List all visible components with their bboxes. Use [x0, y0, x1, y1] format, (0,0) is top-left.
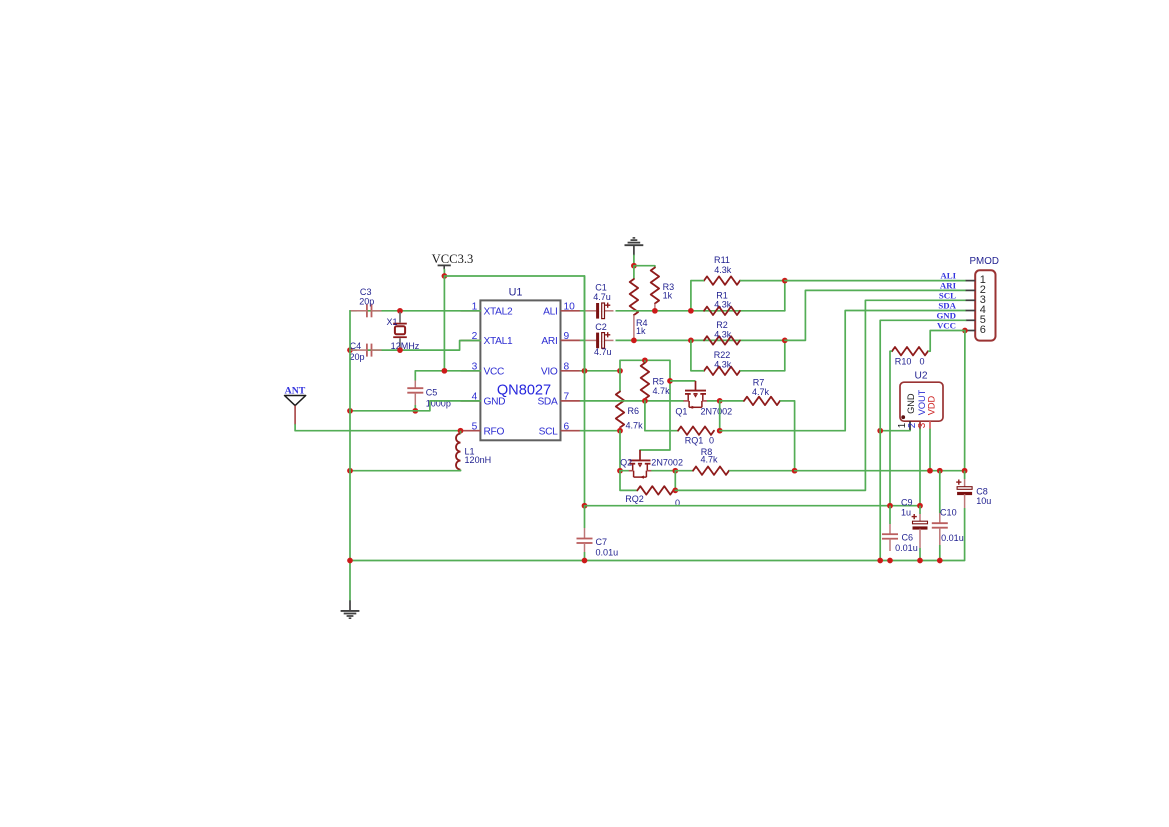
capacitor C8 10u	[956, 471, 991, 561]
U1 pin 9 ARI (right)	[541, 331, 580, 347]
connector J PMOD body	[975, 270, 995, 340]
junction C9 bottom / rail	[917, 558, 923, 564]
ground symbol (top, inverted)	[625, 238, 644, 256]
svg-text:ALI: ALI	[940, 271, 956, 281]
wire SCL 5V to PMOD pin3	[675, 300, 965, 490]
wire SCL down to RQ2	[620, 471, 637, 491]
resistor R2 4.3k	[704, 320, 740, 345]
svg-text:C4: C4	[350, 341, 362, 351]
ground symbol (bottom)	[341, 600, 360, 618]
junction C4 left / gnd rail	[347, 347, 353, 353]
svg-text:GND: GND	[484, 397, 506, 408]
wire PMOD VCC rail down	[964, 331, 966, 471]
junction bottom rail / gnd stem	[347, 558, 353, 564]
svg-text:4.7u: 4.7u	[594, 347, 612, 357]
svg-text:C7: C7	[596, 537, 608, 547]
svg-text:7: 7	[564, 392, 570, 403]
svg-text:2N7002: 2N7002	[701, 406, 733, 416]
junction C7 bottom / rail	[582, 558, 588, 564]
IC U2 body	[900, 382, 943, 421]
wire gnd left vertical	[349, 311, 351, 601]
svg-text:X1: X1	[386, 317, 397, 327]
svg-text:6: 6	[980, 324, 986, 336]
wire SDA pin7 row	[581, 400, 684, 402]
junction SCL / R6 bottom	[617, 428, 623, 434]
svg-text:RQ2: RQ2	[625, 494, 644, 504]
junction ALI out node	[782, 278, 788, 284]
antenna ANT symbol	[285, 385, 306, 424]
svg-text:C5: C5	[426, 387, 438, 397]
junction Q1 drain	[717, 398, 723, 404]
svg-text:Q1: Q1	[675, 406, 687, 416]
capacitor C1 4.7u	[586, 282, 616, 318]
net label SCL	[939, 290, 956, 300]
svg-text:R10: R10	[895, 356, 912, 366]
capacitor C6 0.01u	[882, 506, 918, 553]
wire R1 right tie up	[784, 281, 786, 311]
net label VCC	[937, 321, 956, 331]
svg-text:GND: GND	[936, 310, 956, 320]
svg-text:R6: R6	[628, 406, 640, 416]
wire VCC pin3 row	[415, 370, 480, 372]
U1 pin 1 XTAL2 (left)	[461, 302, 514, 318]
label U1 value QN8027	[497, 383, 551, 399]
wire R11/R1 left tie	[690, 281, 692, 311]
junction ARI out node	[782, 338, 788, 344]
svg-text:VOUT: VOUT	[917, 389, 927, 415]
svg-text:20p: 20p	[349, 352, 364, 362]
wire ANT to RFO	[295, 425, 460, 431]
U1 pin 2 XTAL1 (left)	[461, 331, 514, 347]
wire ALI to PMOD pin1	[785, 280, 966, 282]
PMOD pin 6	[966, 324, 986, 336]
svg-text:SCL: SCL	[939, 290, 956, 300]
junction C7 top / VOUT row	[582, 503, 588, 509]
junction VIO / VCC3.3 vertical	[582, 368, 588, 374]
svg-text:RQ1: RQ1	[685, 436, 704, 446]
svg-text:C2: C2	[595, 322, 607, 332]
label U2 reference	[914, 370, 927, 381]
svg-text:C9: C9	[901, 497, 913, 507]
wire ALI row pin10 to R1	[581, 310, 785, 312]
svg-text:20p: 20p	[359, 297, 374, 307]
svg-text:10: 10	[564, 302, 576, 313]
wire VIO up-over to R5/gate	[620, 360, 670, 450]
U1 pin 4 GND (left)	[461, 392, 506, 408]
U1 pin 5 RFO (left)	[461, 421, 505, 437]
transistor Q2 2N7002	[620, 450, 683, 479]
svg-text:C1: C1	[595, 282, 607, 292]
junction VDD row / C8	[962, 468, 968, 474]
svg-text:1k: 1k	[663, 290, 673, 300]
junction gnd rail / C5 row	[347, 408, 353, 414]
svg-text:0.01u: 0.01u	[941, 533, 964, 543]
resistor R11 4.3k	[691, 255, 785, 285]
wire gnd node to R3 top	[634, 266, 655, 268]
label U1 reference	[509, 287, 523, 299]
wire ground to R3/R4 node	[633, 255, 635, 265]
svg-text:1k: 1k	[636, 326, 646, 336]
junction C6 bottom / rail	[887, 558, 893, 564]
svg-text:PMOD: PMOD	[970, 256, 999, 267]
U2 pin 2 VOUT	[907, 389, 927, 429]
U2 pin 3 VDD	[917, 396, 937, 430]
junction C10 top / VDD row	[937, 468, 943, 474]
wire U2 VDD down	[929, 429, 931, 470]
wire XTAL2 row	[350, 310, 480, 312]
junction R1 left	[688, 308, 694, 314]
wire SCL down to Q2 source	[619, 431, 621, 471]
svg-text:4.3k: 4.3k	[714, 330, 732, 340]
junction ARI / R4 bottom	[631, 338, 637, 344]
svg-text:120nH: 120nH	[465, 455, 492, 465]
resistor RQ1 0	[678, 427, 714, 446]
wire VOUT row	[585, 505, 921, 507]
junction R2 left	[688, 338, 694, 344]
svg-text:0.01u: 0.01u	[596, 548, 619, 558]
wire L1 bottom to gnd rail	[350, 470, 461, 472]
PMOD pin 4	[966, 304, 986, 316]
capacitor C5 1000p	[407, 371, 451, 411]
wire bottom gnd rail	[350, 560, 965, 562]
svg-text:ANT: ANT	[285, 385, 306, 396]
svg-text:4.7u: 4.7u	[593, 292, 611, 302]
svg-text:ARI: ARI	[940, 280, 957, 290]
svg-text:0.01u: 0.01u	[895, 543, 918, 553]
capacitor C2 4.7u	[586, 322, 616, 357]
wire VIO pin8 row	[581, 370, 621, 372]
junction RQ1 right / Q1 drain leg	[717, 428, 723, 434]
capacitor C10 0.01u	[932, 471, 964, 561]
wire ARI to PMOD pin2	[785, 290, 966, 340]
svg-text:R5: R5	[653, 376, 665, 386]
junction SDA / R5 bottom	[642, 398, 648, 404]
resistor R4 1k	[630, 266, 648, 341]
svg-text:2N7002: 2N7002	[651, 458, 683, 468]
svg-text:VCC3.3: VCC3.3	[432, 252, 474, 266]
resistor R6 4.7k	[616, 371, 643, 431]
PMOD pin 2	[966, 284, 986, 296]
svg-text:9: 9	[564, 331, 570, 342]
svg-text:VCC: VCC	[937, 321, 956, 331]
svg-text:8: 8	[564, 362, 570, 373]
wire Q1 drain node	[708, 400, 720, 402]
junction VOUT / C9 top	[917, 503, 923, 509]
svg-text:SDA: SDA	[938, 301, 956, 311]
resistor R5 4.7k	[641, 360, 670, 401]
wire VCC3.3 stem	[443, 270, 445, 277]
resistor R8 4.7k	[675, 447, 794, 475]
wire Q2 source stub	[620, 470, 628, 472]
net label GND	[936, 310, 956, 320]
wire VCC3.3 vertical right	[584, 276, 586, 506]
junction X1 bottom / C4 row	[397, 347, 403, 353]
svg-text:ARI: ARI	[541, 336, 557, 347]
junction C5 bottom	[412, 408, 418, 414]
svg-text:U1: U1	[509, 287, 523, 299]
svg-text:XTAL2: XTAL2	[484, 307, 514, 318]
wire R10 left down	[889, 351, 891, 506]
junction VDD row / R7R8	[792, 468, 798, 474]
resistor R3 1k	[651, 268, 674, 311]
svg-text:ALI: ALI	[543, 307, 557, 318]
U1 pin 3 VCC (left)	[461, 362, 505, 378]
junction VCC3.3 / pin3	[442, 368, 448, 374]
junction C10 bottom / rail	[937, 558, 943, 564]
U1 pin 8 VIO (right)	[541, 362, 581, 378]
U2 pin 1 GND	[897, 393, 916, 431]
svg-text:4.3k: 4.3k	[714, 299, 732, 309]
svg-text:C8: C8	[976, 487, 988, 497]
svg-text:4.7k: 4.7k	[700, 455, 718, 465]
svg-text:VIO: VIO	[541, 367, 558, 378]
wire U2 GND to PMOD GND rail	[880, 430, 910, 432]
net label SDA	[938, 301, 956, 311]
wire Q2 drain down to RQ2 right	[674, 471, 676, 491]
wire R2/R22 left tie	[690, 340, 692, 370]
junction ALI / R3 bottom	[652, 308, 658, 314]
svg-text:5: 5	[472, 421, 478, 432]
svg-text:Q2: Q2	[620, 458, 632, 468]
wire C4/X1 row to XTAL1	[350, 341, 480, 351]
label PMOD reference	[970, 256, 999, 267]
junction Q2 drain	[672, 468, 678, 474]
capacitor C4 20p	[349, 341, 381, 362]
junction VDD pin / VDD row	[927, 468, 933, 474]
capacitor C3 20p	[350, 287, 382, 317]
net label ALI	[940, 271, 956, 281]
svg-text:R7: R7	[753, 378, 765, 388]
wire SDA branch to RQ1	[645, 401, 678, 431]
transistor Q1 2N7002	[670, 381, 732, 417]
wire R22 right tie up	[784, 340, 786, 370]
PMOD pin 3	[966, 294, 986, 306]
wire VCC3.3 top rail to right	[444, 276, 584, 371]
wire Q1 drain down to RQ1	[719, 401, 721, 431]
junction PMOD GND rail bottom	[877, 558, 883, 564]
net label ARI	[940, 280, 957, 290]
resistor R1 4.3k	[704, 290, 740, 315]
wire SCL pin6 row	[581, 430, 621, 432]
wire PMOD GND vertical	[880, 320, 965, 560]
svg-text:SCL: SCL	[539, 426, 559, 437]
junction VCC3.3 node	[442, 273, 448, 279]
junction VIO / R5R6 node	[617, 368, 623, 374]
wire PMOD VCC to R10	[930, 331, 965, 352]
junction R5 top	[642, 357, 648, 363]
svg-text:SDA: SDA	[537, 397, 558, 408]
svg-text:6: 6	[564, 421, 570, 432]
junction X1 top / XTAL2	[397, 308, 403, 314]
junction C6 top / VOUT row	[887, 503, 893, 509]
wire VDD row right	[795, 470, 965, 472]
resistor R7 4.7k	[720, 378, 795, 405]
svg-text:C10: C10	[940, 507, 957, 517]
junction RFO / L1 top	[458, 428, 464, 434]
svg-text:1u: 1u	[901, 507, 911, 517]
junction gnd rail / L1	[347, 468, 353, 474]
svg-text:U2: U2	[914, 370, 927, 381]
svg-text:4.7k: 4.7k	[653, 386, 671, 396]
junction U2 gnd / PMOD GND vertical	[877, 428, 883, 434]
U1 pin 10 ALI (right)	[543, 302, 580, 318]
resistor RQ2 0	[625, 486, 680, 508]
svg-text:0: 0	[709, 436, 714, 446]
svg-text:VCC: VCC	[484, 367, 505, 378]
svg-text:3: 3	[917, 422, 928, 428]
svg-text:0: 0	[919, 356, 924, 366]
svg-text:R11: R11	[714, 255, 730, 265]
U1 pin 7 SDA (right)	[537, 392, 580, 408]
svg-text:GND: GND	[906, 393, 916, 414]
junction RQ2 right	[672, 488, 678, 494]
U1 pin 6 SCL (right)	[539, 421, 581, 437]
PMOD pin 1	[966, 274, 986, 286]
wire SDA 5V to PMOD pin4	[720, 311, 966, 431]
svg-text:RFO: RFO	[484, 426, 505, 437]
svg-text:VDD: VDD	[926, 396, 936, 416]
svg-text:XTAL1: XTAL1	[484, 336, 514, 347]
svg-text:R22: R22	[714, 350, 731, 360]
svg-text:4.7k: 4.7k	[752, 387, 770, 397]
svg-text:4.3k: 4.3k	[714, 359, 732, 369]
junction R3/R4 top node	[631, 263, 637, 269]
svg-text:R2: R2	[716, 320, 728, 330]
crystal X1 12MHz	[386, 312, 419, 351]
wire ARI row pin9 to R2	[581, 339, 785, 341]
IC U1 QN8027 body	[480, 300, 560, 440]
svg-text:4.7k: 4.7k	[626, 420, 644, 430]
capacitor C7 0.01u	[577, 506, 619, 561]
wire Q2 drain node	[652, 470, 675, 472]
wire GND pin4 jog	[350, 401, 480, 411]
power symbol VCC3.3	[432, 252, 474, 269]
capacitor C9 1u	[901, 497, 928, 560]
resistor R22 4.3k	[691, 350, 785, 375]
junction PMOD VCC node	[962, 328, 968, 334]
svg-text:C6: C6	[902, 532, 914, 542]
wire U2 VOUT down	[919, 429, 921, 505]
junction Q2 source / SCL	[617, 468, 623, 474]
resistor R10 0	[890, 347, 930, 366]
wire VCC3.3 down to pin3 row	[443, 276, 445, 371]
svg-text:10u: 10u	[976, 496, 991, 506]
inductor L1 120nH	[456, 431, 491, 471]
svg-text:4.3k: 4.3k	[714, 265, 732, 275]
wire R7 down to VDD row	[794, 401, 796, 471]
PMOD pin 5	[966, 314, 986, 326]
junction Q1 gate tap	[667, 378, 673, 384]
